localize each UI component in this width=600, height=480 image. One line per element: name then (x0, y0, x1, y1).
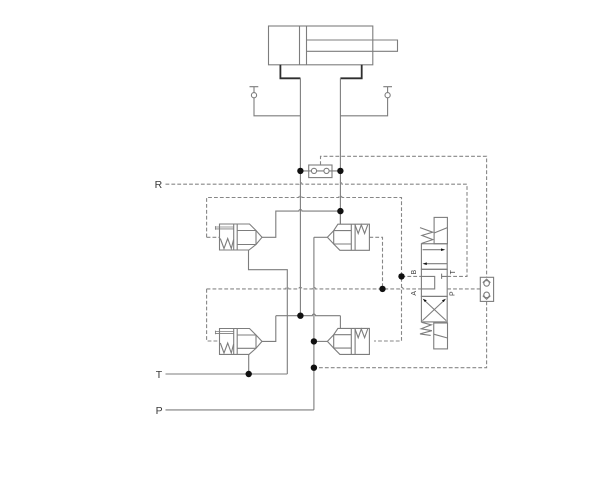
spring top (420, 228, 433, 244)
pilot stub to valve V1 (dashed) (207, 236, 220, 238)
spring bottom (420, 322, 432, 335)
wire valve V1 bottom port to T line (249, 250, 288, 374)
node T line junction (246, 371, 252, 377)
solenoid S2 (bottom) (434, 323, 448, 349)
cylinder C1 body (269, 26, 373, 65)
wire valve V4 top port (339, 316, 341, 329)
wire valve V3 bottom port to T line (248, 354, 250, 374)
node A line junction (337, 208, 343, 214)
counterbalance valve V4 (lower right) (327, 328, 369, 354)
svg-text:T: T (156, 369, 163, 381)
wire valve V1 output to node A (262, 210, 340, 238)
orifice block O1 (300, 165, 340, 178)
directional valve U1 box bottom (crossed arrows) (421, 296, 447, 322)
wire main line A (right vertical) (339, 78, 341, 224)
node B pilot junction (398, 273, 404, 279)
pilot line valve V2 (dashed riser) (369, 237, 382, 289)
cylinder C1 rod (307, 40, 398, 51)
node orifice right junction (337, 168, 343, 174)
wire cross line between V3 output and V4 top (276, 314, 341, 316)
node orifice left junction (297, 168, 303, 174)
wire test point M1 to node B line (254, 98, 300, 116)
cylinder C1 piston (300, 26, 307, 65)
wire valve V2 top port (339, 211, 341, 224)
solenoid S1 (top) (434, 217, 447, 243)
counterbalance valve V1 (upper left) (215, 224, 262, 250)
node P riser junction V4 (311, 338, 317, 344)
svg-text:T: T (450, 269, 457, 274)
pilot line orifice block to check block (dashed) (321, 156, 487, 277)
svg-text:B: B (411, 269, 418, 274)
directional valve U1 box center (421, 269, 447, 296)
pilot net A line (dashed) (207, 287, 422, 289)
counterbalance valve V2 (upper right) (327, 224, 369, 250)
pilot corner to valve V3 (dashed) (207, 289, 220, 341)
pilot net dashed box (UL pilot / B port / LR pilot) (207, 196, 402, 341)
svg-text:P: P (156, 405, 163, 417)
wire valve V3 output riser (262, 316, 276, 342)
svg-text:R: R (155, 179, 163, 191)
test point M1 (left gauge) (250, 87, 259, 98)
wire valve V2 output to P riser (314, 236, 328, 238)
counterbalance valve V3 (lower left) (215, 329, 262, 355)
wire left cylinder port step (280, 65, 300, 79)
pilot stub B port (dashed) (402, 275, 422, 277)
wire P line (166, 409, 314, 411)
junction dots (246, 168, 405, 377)
wire R line (dashed) to valve port T (166, 183, 468, 277)
wire valve V4 output to P riser (314, 340, 328, 342)
pilot line check block to P riser (dashed) (314, 301, 487, 367)
test point M2 (right gauge) (383, 87, 392, 98)
svg-text:A: A (411, 291, 418, 296)
svg-text:P: P (449, 291, 456, 296)
wire right cylinder port step (340, 65, 361, 79)
wire test point M2 to node A line (340, 98, 387, 116)
directional valve U1 box top (parallel arrows) (421, 244, 447, 270)
wire P riser (313, 237, 315, 410)
check block K1 (480, 277, 493, 301)
wire P port to check block (dashed) (447, 288, 480, 290)
node B line junction (297, 313, 303, 319)
node A pilot junction (379, 286, 385, 292)
wire main line B (left vertical) (299, 78, 301, 315)
wire T line (166, 373, 288, 375)
node P riser pilot junction (311, 365, 317, 371)
